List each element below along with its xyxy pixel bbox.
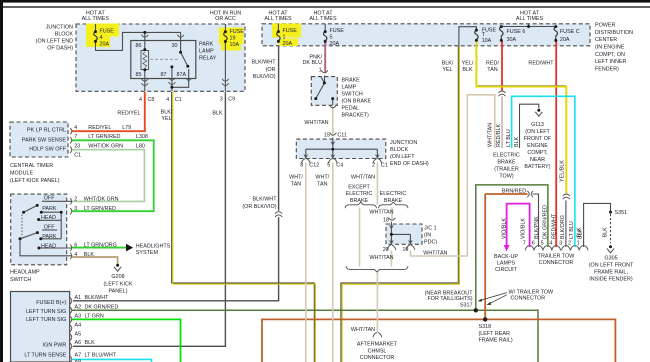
svg-text:PEDAL: PEDAL [342,105,360,111]
svg-text:A4: A4 [75,323,82,329]
svg-text:BLK/PNK: BLK/PNK [534,216,540,239]
svg-text:(LEFT REAR: (LEFT REAR [479,331,510,337]
svg-text:BRAKE: BRAKE [497,159,516,165]
svg-text:FRONT OF: FRONT OF [524,136,552,142]
svg-text:VIO/BLK: VIO/BLK [521,218,527,239]
svg-text:PARK: PARK [42,206,57,212]
svg-text:4: 4 [166,97,169,103]
svg-text:WHT/DK GRN: WHT/DK GRN [88,144,123,150]
svg-text:20: 20 [383,247,389,253]
svg-text:LEFT TURN SIG: LEFT TURN SIG [26,317,66,323]
svg-text:S317: S317 [460,303,473,309]
svg-text:LAMP: LAMP [199,49,214,55]
svg-text:CONNECTOR: CONNECTOR [511,296,546,302]
svg-text:TOW): TOW) [499,173,513,179]
svg-text:FENDER): FENDER) [595,66,619,72]
svg-text:INSIDE FENDER): INSIDE FENDER) [589,277,633,283]
svg-text:BACK-UP: BACK-UP [494,254,518,260]
svg-text:WHT/: WHT/ [289,175,303,181]
svg-text:FUSED B(+): FUSED B(+) [36,300,66,306]
svg-text:7: 7 [523,241,526,247]
svg-text:4: 4 [549,241,552,247]
svg-text:BLK: BLK [212,111,223,117]
svg-text:A2: A2 [75,305,82,311]
svg-text:BLOCK: BLOCK [55,32,74,38]
svg-text:FUSE: FUSE [330,28,345,34]
svg-text:BRACKET): BRACKET) [342,112,369,118]
svg-text:ENGINE: ENGINE [527,143,548,149]
svg-text:BLK: BLK [85,340,96,346]
svg-text:EXCEPT: EXCEPT [348,184,370,190]
svg-text:BRN/RED: BRN/RED [502,189,526,195]
svg-text:BLK: BLK [84,252,95,258]
svg-text:FUSE 6: FUSE 6 [507,29,526,35]
svg-text:FRAME RAIL): FRAME RAIL) [479,338,513,344]
svg-text:DK GRN/RED: DK GRN/RED [543,205,549,239]
svg-text:19: 19 [230,36,236,42]
svg-text:HEAD: HEAD [41,215,56,221]
svg-text:LT GRN/RED: LT GRN/RED [84,206,116,212]
svg-text:(IN: (IN [424,232,431,238]
svg-text:BLK/WHT: BLK/WHT [252,60,277,66]
svg-text:LT TURN SENSE: LT TURN SENSE [24,352,66,358]
svg-text:COMPT, ON: COMPT, ON [595,52,625,58]
svg-text:4: 4 [74,252,77,258]
svg-text:BLK: BLK [603,227,609,238]
svg-text:WHT/DK GRN: WHT/DK GRN [84,196,119,202]
svg-text:4: 4 [74,125,77,131]
svg-text:CONNECTOR: CONNECTOR [539,260,574,266]
svg-text:YEL/BLK: YEL/BLK [560,160,566,182]
svg-text:FOR TAILLIGHTS): FOR TAILLIGHTS) [427,296,472,302]
svg-text:BLK/: BLK/ [161,109,173,115]
svg-text:AFTERMARKET: AFTERMARKET [357,342,398,348]
svg-text:BLK/VIO): BLK/VIO) [253,74,276,80]
svg-text:LT BLU/WHT: LT BLU/WHT [85,352,117,358]
svg-text:(IN ENGINE: (IN ENGINE [595,45,625,51]
svg-text:C4: C4 [336,163,343,169]
svg-text:3: 3 [220,97,223,103]
svg-text:CENTRAL TIMER: CENTRAL TIMER [10,163,53,169]
svg-text:C12: C12 [309,163,319,169]
svg-text:(ON BRAKE: (ON BRAKE [342,98,372,104]
svg-text:LT GRN/RED: LT GRN/RED [88,134,120,140]
svg-text:BRAKE: BRAKE [342,77,361,83]
svg-text:COMPT,: COMPT, [527,150,548,156]
svg-text:20A: 20A [283,41,293,47]
svg-text:POWER: POWER [595,23,615,29]
svg-text:MODULE: MODULE [10,171,33,177]
svg-text:ELECTRIC: ELECTRIC [380,191,407,197]
svg-text:C1: C1 [74,153,81,159]
svg-text:A6: A6 [75,340,82,346]
svg-text:C1: C1 [381,163,388,169]
svg-text:1: 1 [319,68,322,74]
svg-text:S351: S351 [615,210,628,216]
svg-text:A1: A1 [75,295,82,301]
svg-text:RED/WHT: RED/WHT [551,213,557,239]
svg-text:BRAKE: BRAKE [350,198,369,204]
svg-text:OFF: OFF [44,225,55,231]
svg-text:WHT/TAN: WHT/TAN [423,251,447,257]
svg-text:2: 2 [74,196,77,202]
svg-text:FUSE: FUSE [230,29,245,35]
svg-text:L80: L80 [136,144,145,150]
svg-text:G208: G208 [111,274,124,280]
svg-text:TAN: TAN [291,181,301,187]
svg-text:BLK/ORG: BLK/ORG [560,215,566,239]
svg-text:JUNCTION: JUNCTION [390,140,417,146]
svg-text:15: 15 [324,133,330,139]
svg-text:RELAY: RELAY [199,56,217,62]
svg-text:DK GRN/RED: DK GRN/RED [85,305,119,311]
svg-text:JUNCTION: JUNCTION [46,25,73,31]
svg-text:FUSE: FUSE [283,28,298,34]
svg-text:OR ACC: OR ACC [215,16,236,22]
svg-text:PDC): PDC) [424,239,437,245]
svg-text:4: 4 [100,35,103,41]
svg-text:BLK/: BLK/ [442,60,454,66]
svg-text:A7: A7 [75,352,82,358]
svg-text:SWITCH: SWITCH [342,91,363,97]
svg-text:6: 6 [532,241,535,247]
svg-text:4: 4 [139,97,142,103]
svg-text:DK BLU: DK BLU [303,60,323,66]
svg-text:ALL TIMES: ALL TIMES [264,16,292,22]
svg-text:3: 3 [74,206,77,212]
svg-text:RED/BLK: RED/BLK [496,124,502,147]
svg-text:10A: 10A [482,38,492,44]
svg-text:HDLP SW OFF: HDLP SW OFF [29,147,66,153]
svg-text:IGN PWR: IGN PWR [43,343,67,349]
svg-text:TRAILER TOW: TRAILER TOW [538,253,576,259]
svg-text:ELECTRIC: ELECTRIC [493,152,520,158]
svg-text:RED/YEL: RED/YEL [88,125,111,131]
svg-text:FUSE: FUSE [100,28,115,34]
svg-text:30A: 30A [507,37,517,43]
svg-text:PARK: PARK [42,234,57,240]
svg-text:(LEFT KICK: (LEFT KICK [104,281,133,287]
svg-text:5: 5 [327,163,330,169]
svg-text:WHT/TAN: WHT/TAN [351,175,375,181]
svg-text:RED/: RED/ [486,60,499,66]
svg-text:J/C 1: J/C 1 [424,225,437,231]
svg-text:HEADLIGHTS: HEADLIGHTS [136,244,171,250]
svg-text:BATTERY): BATTERY) [524,164,550,170]
svg-text:RED/WHT: RED/WHT [528,60,554,66]
svg-text:G305: G305 [604,256,617,262]
svg-text:BLOCK: BLOCK [390,147,409,153]
svg-text:A5: A5 [75,331,82,337]
svg-text:OFF: OFF [44,196,55,202]
svg-text:5: 5 [541,241,544,247]
svg-text:(TRAILER: (TRAILER [494,166,519,172]
svg-text:20A: 20A [560,37,570,43]
svg-text:(ON LEFT: (ON LEFT [390,154,415,160]
svg-text:(LEFT KICK PANEL): (LEFT KICK PANEL) [10,178,60,184]
svg-text:G113: G113 [531,122,544,128]
svg-text:(OR BLK/VIO): (OR BLK/VIO) [242,204,276,210]
svg-text:WHT/TAN: WHT/TAN [369,210,393,216]
svg-text:BLK: BLK [514,136,520,147]
svg-text:6: 6 [74,243,77,249]
svg-text:OF DASH): OF DASH) [47,46,73,52]
svg-text:C9: C9 [228,97,235,103]
svg-text:NEAR: NEAR [530,157,545,163]
svg-text:RED/YEL: RED/YEL [117,111,140,117]
svg-text:S318: S318 [479,324,492,330]
svg-text:YEL: YEL [161,116,171,122]
svg-text:5: 5 [330,35,333,41]
svg-text:PK LP RL CTRL: PK LP RL CTRL [27,128,66,134]
svg-text:PARK SW SENSE: PARK SW SENSE [22,138,67,144]
svg-text:BLK: BLK [576,227,582,238]
svg-text:CENTER: CENTER [595,37,617,43]
svg-text:20A: 20A [330,41,340,47]
svg-text:LEFT TURN SIG: LEFT TURN SIG [26,309,66,315]
svg-text:LAMP: LAMP [342,84,357,90]
svg-text:LT GRN: LT GRN [85,314,104,320]
svg-text:VIO/BLK: VIO/BLK [501,218,507,239]
svg-text:HEADLAMP: HEADLAMP [10,270,40,276]
svg-text:87A: 87A [177,72,187,78]
svg-text:L79: L79 [122,125,131,131]
svg-text:CONNECTOR: CONNECTOR [360,355,395,361]
svg-text:WHT/TAN: WHT/TAN [351,327,375,333]
svg-text:(ON LEFT: (ON LEFT [525,129,550,135]
svg-text:1: 1 [577,241,580,247]
svg-text:ALL TIMES: ALL TIMES [516,16,544,22]
svg-text:10A: 10A [230,42,240,48]
svg-text:WHT/TAN: WHT/TAN [304,120,328,126]
svg-text:FUSE C: FUSE C [560,29,580,35]
svg-text:PANEL): PANEL) [108,289,127,295]
svg-text:19: 19 [402,247,408,253]
svg-text:BRAKE: BRAKE [384,198,403,204]
svg-text:18: 18 [383,217,389,223]
svg-text:FRAME RAIL,: FRAME RAIL, [594,270,628,276]
svg-text:87: 87 [161,72,167,78]
svg-text:END OF DASH): END OF DASH) [390,161,429,167]
svg-text:SWITCH: SWITCH [10,277,31,283]
svg-text:ALL TIMES: ALL TIMES [82,16,110,22]
svg-text:7: 7 [74,134,77,140]
svg-text:30: 30 [172,43,178,49]
svg-text:C11: C11 [337,133,347,139]
svg-text:(OR: (OR [266,67,276,73]
svg-text:23: 23 [74,144,80,150]
svg-text:DISTRIBUTION: DISTRIBUTION [595,30,633,36]
svg-text:(ON LEFT FRONT: (ON LEFT FRONT [589,263,634,269]
svg-text:WHT/: WHT/ [315,175,329,181]
svg-text:TAN: TAN [317,181,327,187]
svg-text:A3: A3 [75,314,82,320]
svg-text:CIRCUIT: CIRCUIT [495,267,518,273]
svg-text:ELECTRIC: ELECTRIC [346,191,373,197]
svg-text:SYSTEM: SYSTEM [136,250,159,256]
svg-text:ALL TIMES: ALL TIMES [309,16,337,22]
svg-text:86: 86 [136,43,142,49]
svg-text:BLK/WHT: BLK/WHT [253,197,278,203]
svg-text:WHT/TAN: WHT/TAN [487,123,493,147]
svg-text:LT GRN/ORG: LT GRN/ORG [84,243,117,249]
svg-text:WHT/TAN: WHT/TAN [369,255,393,261]
svg-text:C8: C8 [148,97,155,103]
svg-text:8: 8 [300,163,303,169]
svg-text:YEL/: YEL/ [462,60,474,66]
svg-text:CHMSL: CHMSL [368,348,387,354]
svg-text:L308: L308 [136,134,148,140]
svg-text:LT BLU: LT BLU [569,221,575,239]
svg-text:3: 3 [559,241,562,247]
svg-text:TAN: TAN [487,67,497,73]
svg-text:(ON LEFT END: (ON LEFT END [36,39,73,45]
svg-text:BLK: BLK [462,67,473,73]
svg-text:2: 2 [372,163,375,169]
svg-text:2: 2 [568,241,571,247]
svg-text:LEFT INNER: LEFT INNER [595,59,626,65]
svg-text:20A: 20A [100,41,110,47]
svg-text:85: 85 [136,72,142,78]
svg-text:1: 1 [283,35,286,41]
svg-text:BLK/WHT: BLK/WHT [85,295,110,301]
svg-text:C1: C1 [175,97,182,103]
svg-text:HEAD: HEAD [41,244,56,250]
svg-text:PARK: PARK [199,42,214,48]
svg-text:LAMPS: LAMPS [497,261,516,267]
svg-text:LT BLU: LT BLU [506,129,512,147]
svg-text:YEL: YEL [442,67,452,73]
